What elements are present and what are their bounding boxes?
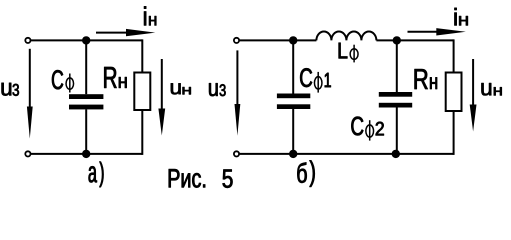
label u3 (b) [209, 83, 218, 96]
label iн (a) [144, 6, 146, 25]
junction dot top Cф2 (b) [393, 36, 401, 44]
wire: capacitor branch lower (a) [85, 109, 87, 153]
wire: bottom rail (a) [28, 153, 142, 155]
capacitor Cф plates (a) [69, 94, 103, 99]
resistor Rн (b) [446, 73, 462, 112]
arrow iн (a) [96, 32, 132, 34]
label iн (b) [455, 8, 457, 26]
wire: top rail (a) [28, 39, 142, 41]
caption Рис. 5 [169, 169, 205, 187]
arrow u3 (b) [236, 50, 238, 110]
wire: top rail left (b) [237, 39, 317, 41]
label Lф (b) [339, 43, 348, 59]
terminal bottom-left (a) [25, 151, 30, 156]
arrow uн (a) [161, 59, 163, 112]
label uн (a) [171, 83, 181, 94]
wire: load branch upper (a) [141, 39, 143, 73]
arrow uн (b) [472, 59, 474, 108]
wire: capacitor Cф2 branch upper (b) [396, 40, 398, 92]
wire: load branch lower (a) [141, 110, 143, 155]
terminal top-left (a) [25, 38, 30, 43]
capacitor Cф1 plates (b) [277, 94, 310, 99]
label Rн (b) [415, 69, 428, 89]
wire: capacitor Cф2 branch lower (b) [396, 108, 398, 154]
resistor Rн (a) [134, 73, 150, 111]
junction dot bottom Cф2 (b) [392, 150, 400, 158]
wire: top rail right (b) [376, 39, 453, 41]
wire: load branch upper (b) [453, 39, 455, 73]
label а) [89, 166, 97, 182]
junction dot top Cф1 (b) [289, 36, 297, 44]
wire: load branch lower (b) [453, 111, 455, 155]
label Cф2 (b) [351, 117, 363, 136]
label u3 (a) [2, 83, 12, 96]
junction dot bottom (a) [82, 150, 90, 158]
wire: capacitor Cф1 branch upper (b) [292, 40, 294, 93]
wire: bottom rail (b) [237, 153, 454, 155]
terminal bottom-left (b) [234, 151, 239, 156]
label Cф1 (b) [300, 68, 312, 87]
arrow iн (b) [408, 31, 443, 33]
wire: capacitor branch upper (a) [85, 40, 87, 94]
junction dot top (a) [82, 36, 90, 44]
wire: capacitor Cф1 branch lower (b) [292, 109, 294, 154]
junction dot bottom Cф1 (b) [289, 150, 297, 158]
label Rн (a) [104, 67, 116, 88]
terminal top-left (b) [234, 38, 239, 43]
label uн (b) [482, 83, 492, 95]
label Cф (a) [52, 70, 63, 89]
inductor Lф (b) [316, 32, 376, 41]
arrow u3 (a) [29, 49, 31, 112]
label б) [297, 162, 306, 182]
capacitor Cф2 plates (b) [379, 92, 412, 97]
